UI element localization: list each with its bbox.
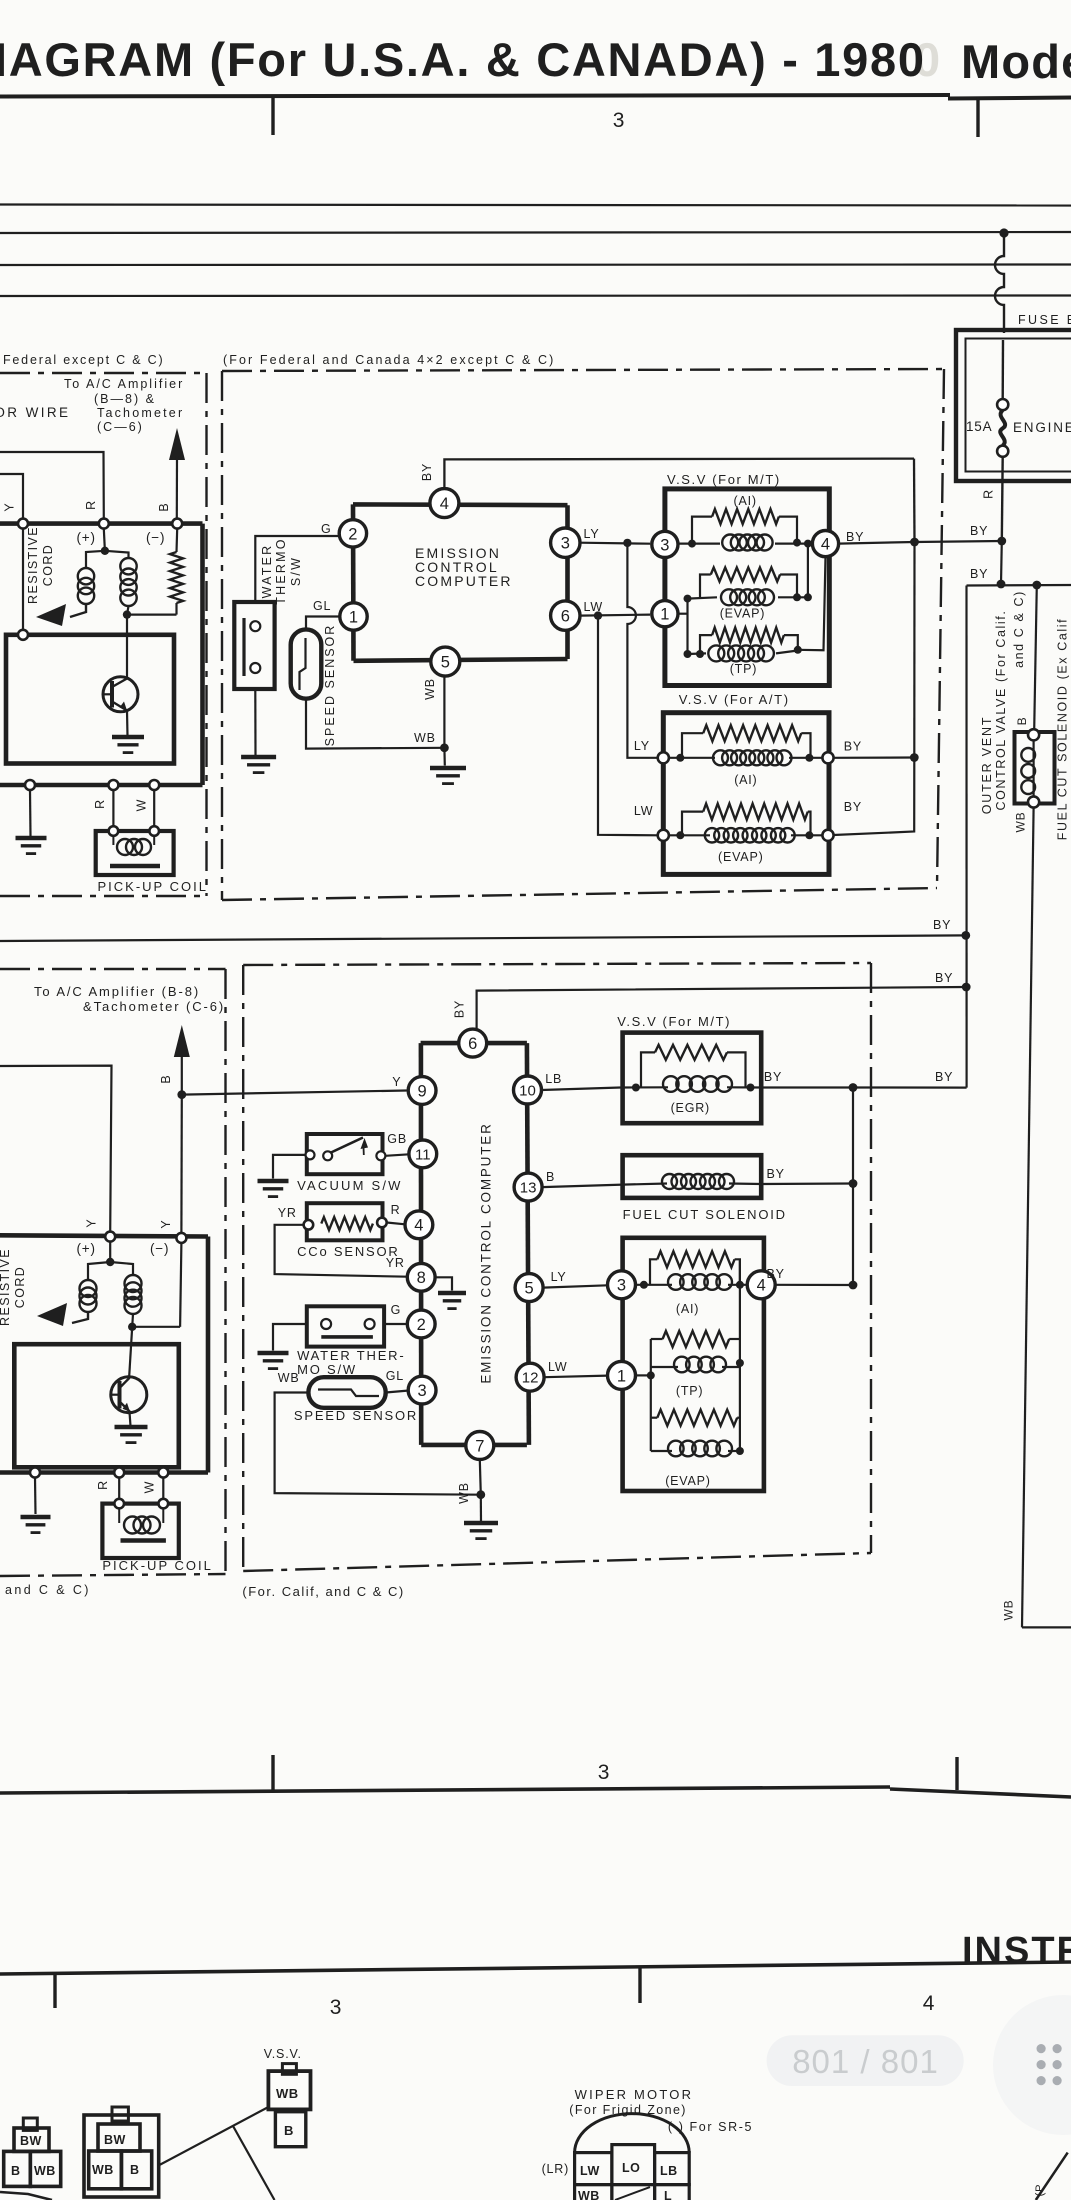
wiper motor cell LB: [655, 2153, 690, 2185]
svg-text:(EVAP): (EVAP): [720, 607, 766, 621]
emission control computer U1 outline: [353, 504, 568, 660]
svg-text:W: W: [143, 1481, 157, 1494]
VSV EGR leads: [623, 1052, 762, 1091]
wiper motor cell LO: [612, 2145, 655, 2185]
section 4 dash-dot border right: [870, 963, 872, 1553]
chassis ground section 1: [16, 838, 47, 854]
wire fuse output down: [1000, 541, 1003, 584]
water thermo switch contacts: [244, 618, 260, 676]
connector J1 cell B: [4, 2151, 31, 2186]
label SPEED SENSOR s4: [294, 1408, 418, 1423]
pick-up coil winding section 3: [119, 1509, 166, 1541]
svg-text:G: G: [391, 1303, 402, 1317]
distributor rotor arrow section 3: [37, 1303, 67, 1326]
node EGR BY: [849, 1083, 858, 1092]
svg-text:801 / 801: 801 / 801: [792, 2043, 939, 2080]
computer pin 12 s4: [516, 1363, 544, 1391]
label CCo SENSOR: [297, 1244, 400, 1259]
svg-text:(For. Calif, and C & C): (For. Calif, and C & C): [242, 1584, 404, 1599]
svg-text:B: B: [159, 1074, 173, 1083]
terminal Y- section 3: [176, 1233, 186, 1243]
svg-text:To A/C Amplifier: To A/C Amplifier: [64, 377, 184, 391]
svg-text:S/W: S/W: [289, 556, 303, 586]
speed sensor reed detail: [300, 638, 306, 690]
node coil bottom section 3: [128, 1323, 136, 1331]
svg-text:(AI): (AI): [734, 773, 757, 787]
svg-text:W: W: [135, 799, 149, 812]
computer pin 3 s4: [408, 1376, 436, 1404]
title text WIRING DIAGRAM (For U.S.A. & CANADA) - 1980: [0, 33, 1071, 88]
svg-text:4: 4: [821, 536, 830, 554]
wiper motor cell L: [655, 2185, 690, 2200]
lower ruler 2 tick left: [53, 1973, 56, 2008]
top ruler label 3: [613, 109, 625, 132]
VSV AT terminal LY: [658, 752, 669, 763]
svg-text:Federal except C & C): Federal except C & C): [3, 353, 164, 367]
VSV EGR solenoid resistor: [655, 1045, 727, 1060]
svg-text:YR: YR: [278, 1206, 297, 1220]
VSV MT box: [665, 489, 829, 686]
node WB s4: [476, 1490, 485, 1499]
label V.S.V (For M/T) s4: [617, 1014, 731, 1029]
section 4 dash-dot border bottom: [243, 1553, 871, 1571]
label W pickup: [135, 799, 149, 812]
bus wire 4: [0, 294, 1071, 297]
fuse block outer box: [956, 330, 1071, 481]
svg-text:(For Federal and Canada 4×: (For Federal and Canada 4×2 except C & C…: [223, 353, 555, 367]
wire coil to Y- terminal: [132, 1243, 181, 1327]
svg-text:(TP): (TP): [676, 1384, 704, 1398]
svg-text:&Tachometer (C-6): &Tachometer (C-6): [83, 999, 225, 1014]
svg-text:1: 1: [660, 606, 669, 624]
distributor rotor arrow: [36, 604, 66, 626]
svg-text:3: 3: [418, 1382, 427, 1400]
svg-text:R: R: [93, 799, 107, 809]
label (AI) s4: [676, 1302, 699, 1316]
label CONTROL VALVE (For Calif. (rotated): [994, 610, 1008, 811]
VSV s4 pin 3: [608, 1271, 636, 1299]
terminal bottom W section 3: [158, 1468, 168, 1478]
svg-text:WB: WB: [276, 2086, 299, 2101]
VSV MT pin 4 to TP bus: [798, 557, 826, 651]
svg-text:(LR): (LR): [542, 2162, 570, 2176]
label FUEL CUT SOLENOID: [623, 1207, 787, 1222]
svg-text:Y: Y: [392, 1075, 401, 1089]
wire water thermo to ground s4: [273, 1324, 307, 1351]
wire vacuum switch to ground: [273, 1155, 306, 1179]
wire pin 3 to VSV pin 3 LY: [580, 543, 650, 544]
label WATER THERMO S/W (rotated): [260, 537, 303, 604]
svg-text:FUSE B: FUSE B: [1018, 313, 1071, 327]
svg-text:RESISTIVE: RESISTIVE: [26, 526, 40, 604]
viewer FAB circle: [993, 1995, 1071, 2135]
VSV AT EVAP solenoid coil: [705, 828, 795, 842]
CCo sensor box: [307, 1203, 383, 1240]
label Y pin 9: [392, 1075, 401, 1089]
svg-text:COMPUTER: COMPUTER: [415, 573, 513, 589]
computer pin 8 s4: [407, 1263, 435, 1291]
svg-text:(EVAP): (EVAP): [718, 850, 764, 864]
svg-text:(C—6): (C—6): [97, 420, 144, 434]
wire into fuse: [1002, 340, 1005, 399]
node VSV s4 BY: [849, 1281, 858, 1290]
computer pin 11 s4: [409, 1140, 437, 1168]
label LY AT: [634, 739, 650, 753]
label LB: [545, 1072, 562, 1086]
wire pin 12 to VSV pin 1 s4: [544, 1376, 607, 1378]
wire WB to right edge: [1022, 1626, 1071, 1628]
label BY EGR line right: [935, 1070, 953, 1084]
fuse F1 15A ENGINE symbol: [997, 399, 1008, 457]
VSV MT pin 4: [812, 531, 838, 557]
wire VSV s4 pin 4 BY out: [775, 1284, 853, 1286]
wire water thermo to ground: [254, 691, 256, 755]
label (P rotated bottom right: [1034, 2184, 1046, 2197]
distributor box top edge section 3: [0, 1235, 208, 1236]
section 2 header (For Federal and Canada 4x2 except C & C): [223, 353, 555, 367]
svg-text:3: 3: [613, 109, 625, 132]
fuel cut solenoid coil: [623, 1174, 762, 1189]
svg-text:BY: BY: [935, 1070, 953, 1084]
wire Y feed: [0, 474, 23, 518]
wire collector feed: [126, 615, 128, 678]
label BY AT AI: [844, 740, 862, 754]
label FUEL CUT SOLENOID (Ex Calif (rotated): [1056, 618, 1070, 840]
pick-up coil box: [96, 831, 174, 875]
bus wire 2: [0, 232, 1071, 233]
bus wire 3: [0, 263, 1071, 266]
svg-text:BY: BY: [970, 524, 988, 538]
connector J2 cell B: [121, 2151, 151, 2189]
label Y plus: [85, 1218, 99, 1227]
node BY at VSV column: [910, 538, 919, 547]
VSV EGR box: [623, 1033, 762, 1124]
computer pin 13 s4: [514, 1173, 542, 1201]
note To A/C Amplifier (B-8) & Tachometer (C-6) section 3: [34, 984, 225, 1014]
svg-text:To A/C Amplifier (B-8): To A/C Amplifier (B-8): [34, 984, 200, 999]
svg-text:5: 5: [525, 1280, 534, 1298]
section 3 dash-dot border right: [224, 969, 226, 1574]
svg-text:3: 3: [660, 536, 669, 554]
svg-text:Y: Y: [159, 1219, 173, 1228]
svg-text:LY: LY: [551, 1270, 567, 1284]
svg-text:R: R: [982, 489, 996, 499]
svg-text:BY: BY: [844, 740, 862, 754]
ground below water thermo s4: [258, 1353, 289, 1369]
label BY pin6 line right: [935, 971, 953, 985]
wire emitter to ground: [126, 711, 129, 736]
node coil feed section 3: [106, 1258, 114, 1266]
label BY EGR: [764, 1070, 782, 1084]
node coil bottom: [123, 610, 131, 618]
wire BY bus right side: [852, 1088, 854, 1286]
section 2 dash-dot border bottom: [222, 888, 937, 900]
svg-text:CCo SENSOR: CCo SENSOR: [297, 1244, 400, 1259]
node WB: [440, 743, 449, 752]
wire pin 6 to VSV pin 1 LW: [580, 615, 650, 616]
section 4 dash-dot border top: [243, 963, 871, 965]
label GL pin 1: [313, 599, 331, 613]
bus wire 1: [0, 205, 1071, 206]
terminal bottom R: [108, 780, 118, 790]
VSV AT AI left leads: [669, 733, 715, 762]
wire pin 4 BY up and right: [444, 459, 914, 489]
wire R to pick-up coil section 3: [118, 1478, 120, 1504]
label WB at ground node: [414, 731, 436, 745]
label V.S.V. connector: [264, 2047, 302, 2061]
wire CCo sensor to pin 8 YR: [275, 1225, 408, 1277]
label (EVAP) AT: [718, 850, 764, 864]
svg-text:V.S.V (For A/T): V.S.V (For A/T): [679, 692, 790, 707]
label ENGINE: [1013, 420, 1071, 435]
pick-up coil terminal W: [149, 826, 159, 836]
svg-text:BW: BW: [104, 2133, 126, 2147]
svg-text:RESISTIVE: RESISTIVE: [0, 1248, 12, 1326]
label EMISSION CONTROL COMPUTER: [415, 545, 513, 589]
VSV MT AI right leads: [775, 517, 812, 548]
speed sensor capsule s4: [308, 1377, 385, 1408]
svg-text:WB: WB: [457, 1482, 471, 1504]
wire Y+ to coil node: [109, 1242, 111, 1262]
VSV s4 AI solenoid coil: [668, 1274, 732, 1290]
computer pin 3: [551, 528, 580, 557]
wire to chassis ground: [29, 790, 32, 836]
computer pin 4 s4: [405, 1211, 433, 1239]
connector VSV tab: [282, 2064, 296, 2075]
svg-text:TOR WIRE: TOR WIRE: [0, 405, 70, 420]
ignition coil primary section 3: [72, 1262, 110, 1323]
node BY long line tee: [961, 931, 970, 940]
svg-text:4: 4: [923, 1992, 935, 2015]
svg-text:V.S.V (For M/T): V.S.V (For M/T): [617, 1014, 731, 1029]
svg-text:4: 4: [440, 495, 449, 513]
svg-text:GB: GB: [387, 1132, 407, 1146]
svg-text:THERMO: THERMO: [274, 537, 288, 604]
label (LR): [542, 2162, 570, 2176]
svg-text:BY: BY: [420, 463, 434, 481]
label RESISTIVE CORD (rotated): [26, 526, 55, 604]
VSV MT pin 3: [652, 531, 678, 557]
svg-text:B: B: [546, 1170, 555, 1184]
label (-) section 3: [150, 1241, 169, 1256]
svg-text:BY: BY: [844, 800, 862, 814]
top ruler line: [0, 95, 1071, 99]
VSV s4 TP solenoid coil: [674, 1357, 726, 1373]
label (+): [77, 530, 96, 545]
VSV AT AI solenoid resistor: [703, 725, 801, 741]
resistor in B branch: [170, 529, 183, 615]
svg-text:Y: Y: [85, 1218, 99, 1227]
transistor Q2: [111, 1377, 147, 1413]
svg-text:BY: BY: [764, 1070, 782, 1084]
VSV AT AI solenoid coil: [713, 750, 792, 765]
svg-text:3: 3: [330, 1996, 342, 2019]
wiper motor cell mid: [612, 2185, 655, 2200]
svg-text:EMISSION CONTROL COMPUTER: EMISSION CONTROL COMPUTER: [478, 1122, 493, 1383]
label SPEED SENSOR (rotated): [323, 624, 337, 747]
svg-text:WB: WB: [92, 2163, 114, 2177]
pick-up coil terminal R section 3: [114, 1499, 124, 1509]
VSV AT terminal BY1: [822, 752, 833, 763]
VSV MT EVAP right leads: [778, 544, 812, 602]
label LY s4: [551, 1270, 567, 1284]
svg-text:BW: BW: [20, 2134, 42, 2148]
ground WB section 4: [464, 1523, 498, 1539]
section 3 dash-dot border bottom: [0, 1574, 226, 1576]
label (TP) s4: [676, 1384, 704, 1398]
distributor box right edge: [200, 524, 205, 785]
svg-text:LY: LY: [584, 527, 600, 541]
node coil feed: [101, 547, 109, 555]
label R pickup: [93, 799, 107, 809]
VSV s4 AI leads: [636, 1259, 748, 1289]
node BY lower: [997, 580, 1006, 589]
connector J1 cell BW: [14, 2128, 49, 2151]
emission control computer U2 outline: [421, 1043, 529, 1445]
label V.S.V (For A/T): [679, 692, 790, 707]
label R: [84, 500, 98, 510]
svg-text:Mode: Mode: [961, 35, 1071, 88]
arrow to A/C amplifier: [169, 428, 185, 518]
svg-text:B: B: [1015, 717, 1029, 726]
computer pin 7 s4: [466, 1432, 494, 1460]
VSV MT TP solenoid resistor: [712, 628, 784, 643]
VSV EGR solenoid coil: [663, 1076, 732, 1092]
computer pin 9 s4: [408, 1077, 436, 1105]
terminal B: [172, 519, 182, 529]
label FUSE B: [1018, 313, 1071, 327]
wire speed sensor to WB node: [306, 701, 444, 749]
wire BY column to AT VSV: [913, 542, 915, 758]
VSV s4 AI solenoid resistor: [657, 1251, 734, 1267]
wire VSV MT pin4 BY out: [839, 542, 915, 544]
wire emitter to ground section 3: [130, 1412, 131, 1426]
svg-text:Y: Y: [3, 502, 17, 511]
svg-text:WB: WB: [34, 2164, 56, 2178]
svg-text:R: R: [96, 1480, 110, 1490]
svg-text:BY: BY: [970, 567, 988, 581]
computer pin 4: [430, 489, 459, 518]
section 3 header and C & C): [5, 1583, 91, 1597]
svg-text:WIPER MOTOR: WIPER MOTOR: [575, 2087, 694, 2102]
vacuum switch contacts: [306, 1138, 386, 1161]
label R pickup section 3: [96, 1480, 110, 1490]
node BY to outer vent valve: [1032, 581, 1041, 590]
section 1 header Federal except C & C): [3, 353, 164, 367]
outer vent control valve coil box: [1015, 732, 1055, 804]
section 2 dash-dot border top: [222, 369, 944, 371]
svg-text:INSTRUMENT: INSTRUMENT: [962, 1930, 1071, 1972]
wire BY down to VSV column: [913, 459, 916, 542]
VSV AI-TP-EVAP box: [623, 1238, 764, 1491]
node BY pin6 tee: [962, 983, 971, 992]
wire to chassis ground section 3: [34, 1478, 37, 1515]
section 2 dash-dot border right: [937, 369, 944, 888]
terminal bottom left section 3: [30, 1468, 40, 1478]
label PICK-UP COIL section 3: [102, 1558, 212, 1573]
wire speed sensor to WB node s4: [275, 1393, 481, 1495]
svg-text:R: R: [84, 500, 98, 510]
label B at valve: [1015, 717, 1029, 726]
terminal bottom R section 3: [114, 1468, 124, 1478]
label VACUUM S/W: [297, 1178, 403, 1193]
svg-text:10: 10: [519, 1082, 536, 1099]
wiper motor housing arc: [575, 2114, 690, 2153]
svg-text:SPEED SENSOR: SPEED SENSOR: [323, 624, 337, 747]
ignition coil primary winding: [70, 551, 105, 617]
wire from R terminal to coil node: [104, 529, 105, 551]
svg-text:13: 13: [520, 1180, 537, 1197]
svg-text:BY: BY: [453, 1000, 467, 1018]
node AT VSV AI BY: [910, 753, 919, 762]
svg-text:(P: (P: [1034, 2184, 1046, 2197]
label 15A: [966, 419, 992, 434]
svg-text:2: 2: [417, 1316, 426, 1334]
water thermo switch box s4: [307, 1306, 384, 1346]
svg-text:(TP): (TP): [730, 662, 758, 676]
svg-text:BY: BY: [933, 918, 951, 932]
wire BY to VSV feed: [915, 541, 1002, 542]
VSV s4 EVAP solenoid resistor: [657, 1410, 737, 1426]
label (For Frigid Zone): [569, 2103, 687, 2117]
section 4 header (For. Calif. and C & C): [242, 1584, 404, 1599]
label (TP) MT: [730, 662, 758, 676]
VSV MT EVAP solenoid resistor: [711, 568, 780, 582]
VSV MT EVAP left leads: [688, 575, 718, 599]
label BY lower: [970, 567, 988, 581]
wire pin 10 to EGR LB: [542, 1088, 621, 1091]
wire BY horizontal to right edge: [967, 584, 1071, 587]
node on bus wire 2 feeding fuse: [999, 228, 1008, 237]
wire WB node to ground: [443, 748, 446, 766]
svg-text:B: B: [130, 2163, 140, 2177]
wire BY column to AT EVAP: [834, 758, 915, 836]
wire water thermo to pin 2 G: [255, 536, 339, 600]
computer pin 2: [339, 520, 366, 547]
lower ruler 2 label 4: [923, 1992, 935, 2015]
label LW AT: [634, 804, 653, 818]
VSV s4 TP solenoid resistor: [663, 1331, 730, 1347]
lower ruler 1 tick right: [955, 1757, 958, 1790]
svg-text:VACUUM S/W: VACUUM S/W: [297, 1178, 403, 1193]
wire from fuse down: [1001, 457, 1004, 541]
svg-text:(−): (−): [146, 530, 165, 545]
svg-text:LW: LW: [548, 1360, 567, 1374]
svg-text:FUEL CUT SOLENOID (Ex Cali: FUEL CUT SOLENOID (Ex Calif: [1056, 618, 1070, 840]
valve terminal bottom: [1028, 796, 1039, 807]
wire to outer vent control valve: [1034, 585, 1037, 730]
bottom right diagonal wire: [1036, 2153, 1068, 2200]
svg-text:WATER: WATER: [260, 544, 274, 599]
wire R to pick-up coil: [112, 790, 114, 831]
fuse block inner box: [966, 339, 1071, 472]
wire fuel cut BY out: [761, 1182, 853, 1185]
section 1 dash-dot border right: [205, 373, 207, 896]
svg-text:CORD: CORD: [41, 544, 55, 586]
computer pin 5: [431, 647, 460, 676]
svg-text:(AI): (AI): [676, 1302, 699, 1316]
svg-text:PICK-UP COIL: PICK-UP COIL: [98, 879, 208, 894]
svg-text:6: 6: [468, 1035, 477, 1053]
CCo sensor resistor element: [321, 1217, 373, 1230]
VSV AT AI right leads: [789, 733, 823, 762]
viewer page count 801 / 801: [792, 2043, 939, 2080]
wire LW branch down: [598, 616, 658, 836]
svg-text:and C & C): and C & C): [5, 1583, 91, 1597]
long BY wire across page: [0, 935, 966, 941]
label BY fuel cut: [767, 1167, 785, 1181]
svg-text:B: B: [284, 2123, 294, 2138]
